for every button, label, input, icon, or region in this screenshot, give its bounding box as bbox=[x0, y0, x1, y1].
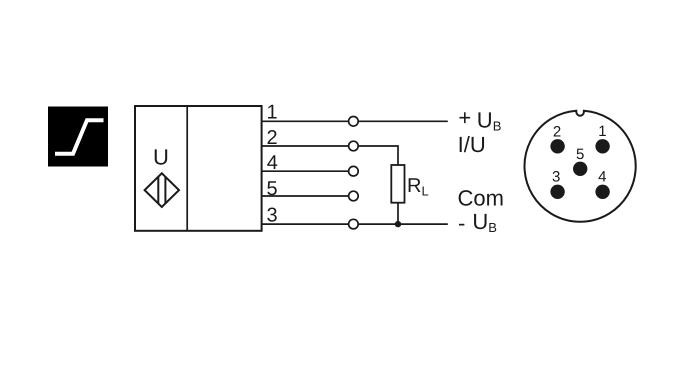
svg-text:4: 4 bbox=[267, 152, 278, 174]
svg-text:U: U bbox=[153, 145, 169, 170]
terminal circle pin3 bbox=[349, 219, 359, 229]
svg-text:+: + bbox=[458, 105, 471, 130]
sensor internal divider bbox=[186, 106, 188, 231]
svg-text:4: 4 bbox=[598, 169, 606, 186]
transducer symbol (diamond with parallel plates) bbox=[145, 173, 179, 207]
wire pin2 to I/U node bbox=[262, 146, 398, 165]
wire pin4 stub bbox=[262, 170, 349, 172]
svg-text:2: 2 bbox=[266, 127, 277, 149]
svg-text:Com: Com bbox=[458, 185, 504, 210]
svg-text:I/U: I/U bbox=[458, 132, 486, 157]
wire pin3 to -UB bbox=[262, 223, 448, 225]
svg-text:2: 2 bbox=[553, 124, 561, 141]
svg-text:1: 1 bbox=[266, 102, 277, 124]
resistor RL body bbox=[391, 165, 404, 203]
output-characteristic icon (analog ramp symbol) bbox=[48, 107, 108, 167]
terminal circle pin1 bbox=[349, 117, 359, 127]
terminal circle pin2 bbox=[349, 141, 359, 151]
svg-text:1: 1 bbox=[598, 123, 606, 140]
connector pin 3 dot bbox=[550, 185, 564, 199]
svg-text:-: - bbox=[458, 210, 465, 235]
wire pin1 to +UB bbox=[262, 120, 448, 122]
sensor body outline bbox=[135, 106, 262, 231]
junction node on -UB wire bbox=[395, 221, 401, 227]
connector pin 1 dot bbox=[595, 139, 609, 153]
connector pin 5 dot bbox=[573, 162, 587, 176]
svg-text:3: 3 bbox=[266, 204, 277, 226]
svg-text:5: 5 bbox=[266, 178, 277, 200]
connector housing with keyway notch bbox=[525, 111, 636, 222]
connector pin 4 dot bbox=[595, 185, 609, 199]
svg-text:5: 5 bbox=[576, 146, 584, 163]
wire pin5 stub bbox=[262, 195, 349, 197]
terminal circle pin5 bbox=[349, 191, 359, 201]
svg-text:3: 3 bbox=[552, 169, 560, 186]
wire resistor bottom lead bbox=[397, 203, 399, 224]
terminal circle pin4 bbox=[349, 166, 359, 176]
connector pin 2 dot bbox=[550, 139, 564, 153]
